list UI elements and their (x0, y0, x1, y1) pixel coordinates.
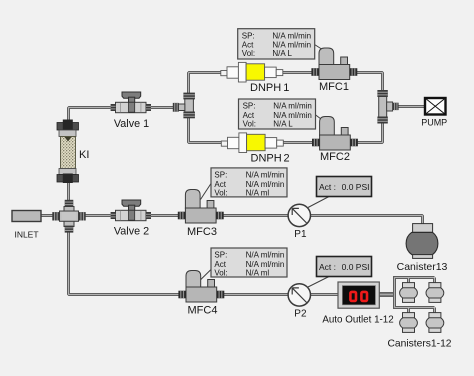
svg-text:Vol:: Vol: (214, 268, 227, 277)
svg-text:N/A L: N/A L (273, 119, 293, 128)
svg-text:Valve 2: Valve 2 (114, 226, 149, 238)
svg-text:PUMP: PUMP (421, 118, 447, 128)
svg-text:P2: P2 (294, 309, 307, 320)
svg-text:SP:: SP: (214, 251, 227, 260)
svg-text:N/A ml/min: N/A ml/min (246, 251, 285, 260)
svg-text:Act :: Act : (319, 182, 336, 192)
wire: display to manifold (379, 292, 394, 297)
svg-text:N/A ml/min: N/A ml/min (273, 102, 312, 111)
callout line to MFC2 (315, 115, 325, 123)
wire: valve2 to MFC3 (151, 214, 180, 217)
wire: cross down to MFC4 (69, 232, 180, 295)
svg-text:KI: KI (79, 149, 89, 161)
svg-text:SP:: SP: (242, 31, 255, 40)
svg-text:Vol:: Vol: (243, 119, 256, 128)
svg-text:P1: P1 (294, 229, 307, 240)
svg-text:DNPH: DNPH (251, 153, 282, 165)
canister small TL (400, 283, 418, 303)
tee fitting (left, to DNPH rows) (173, 93, 195, 119)
wire: tee up to DNPH1 (189, 73, 222, 97)
wire: cross to valve2 (85, 214, 111, 217)
svg-text:MFC4: MFC4 (188, 305, 218, 317)
INLET box (12, 211, 41, 222)
svg-text:Canisters1-12: Canisters1-12 (387, 339, 451, 350)
wire: canister manifold (395, 278, 435, 313)
callout line to MFC1 (315, 45, 326, 52)
svg-text:MFC1: MFC1 (319, 81, 349, 93)
info box 3 (MFC3) (211, 168, 287, 197)
info box 1 (MFC1) (238, 29, 315, 59)
svg-text:Vol:: Vol: (214, 188, 227, 197)
svg-text:Canister13: Canister13 (397, 261, 448, 273)
wire: pump tee to PUMP (398, 105, 425, 108)
svg-text:1: 1 (283, 82, 289, 94)
DNPH2 cartridge (221, 133, 283, 153)
svg-text:Valve 1: Valve 1 (114, 118, 149, 130)
wire: KI to cross (67, 180, 70, 201)
wire: pump tee down to MFC2 (356, 121, 383, 143)
valve V2 (111, 200, 151, 221)
svg-text:SP:: SP: (243, 102, 256, 111)
wire: P1 to Canister13 (311, 216, 423, 225)
gauge P1 (288, 204, 310, 226)
svg-text:INLET: INLET (14, 230, 38, 240)
MFC4 (178, 271, 224, 303)
svg-text:2: 2 (284, 153, 290, 165)
wire: tee down to DNPH2 (189, 117, 222, 143)
canister small TR (426, 283, 444, 303)
wire: valve1 to KI elbow (69, 108, 111, 121)
Act box 2 (P2) (317, 257, 372, 277)
info box 2 (MFC2) (239, 99, 316, 129)
svg-text:Vol:: Vol: (242, 49, 255, 58)
svg-text:DNPH: DNPH (250, 82, 281, 94)
callout line Act2 to P2 (308, 277, 329, 288)
wire: INLET to cross (40, 214, 53, 217)
gauge P2 (288, 284, 310, 306)
wire: valve1 to tee (151, 106, 175, 109)
wire: P2 to display (311, 293, 340, 296)
svg-text:Auto Outlet 1-12: Auto Outlet 1-12 (322, 315, 393, 326)
svg-text:N/A ml/min: N/A ml/min (272, 31, 311, 40)
callout line Act1 to P1 (308, 197, 329, 208)
Act box 1 (P1) (317, 177, 372, 197)
svg-text:SP:: SP: (214, 171, 227, 180)
callout line to MFC4 (201, 270, 211, 280)
svg-text:0.0 PSI: 0.0 PSI (342, 182, 370, 192)
svg-text:0.0 PSI: 0.0 PSI (342, 262, 370, 272)
svg-text:N/A L: N/A L (272, 49, 292, 58)
canister small BR (426, 313, 444, 333)
svg-text:MFC2: MFC2 (320, 151, 350, 163)
svg-text:N/A ml: N/A ml (246, 188, 270, 197)
Auto Outlet display (338, 282, 379, 308)
MFC3 (178, 190, 224, 224)
svg-text:N/A ml: N/A ml (246, 268, 270, 277)
KI column (57, 120, 79, 184)
MFC1 (311, 48, 357, 80)
callout line to MFC3 (201, 184, 212, 200)
svg-text:Act :: Act : (319, 262, 336, 272)
wire: MFC1 to pump tee (356, 73, 383, 93)
wire: MFC3 to P1 (223, 214, 289, 217)
wire: MFC2 to DNPH2 (283, 141, 312, 144)
cross fitting (52, 200, 85, 233)
pump tee fitting (377, 90, 398, 124)
valve V1 (111, 92, 151, 113)
info box 4 (MFC4) (211, 248, 287, 277)
svg-text:MFC3: MFC3 (187, 226, 217, 238)
svg-text:N/A ml/min: N/A ml/min (246, 171, 285, 180)
MFC2 (312, 117, 358, 151)
PUMP (425, 98, 446, 115)
wire: MFC4 to P2 (224, 293, 289, 296)
DNPH1 cartridge (221, 62, 283, 82)
wire: DNPH1 to MFC1 (283, 71, 314, 74)
canister small BL (400, 313, 418, 333)
Canister13 (406, 224, 438, 259)
